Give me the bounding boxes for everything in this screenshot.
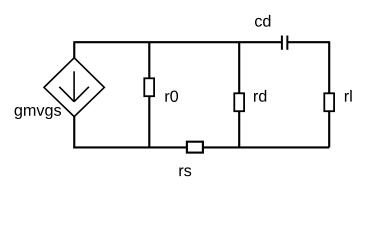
label rl [345, 90, 352, 102]
wire top rail left segment (current source to capacitor) [74, 41, 282, 43]
resistor rl [324, 93, 334, 111]
wire rd column [238, 42, 240, 147]
wire rl column [328, 41, 330, 147]
label rs [179, 167, 191, 176]
wire r0 column [148, 42, 150, 147]
resistor rd [234, 93, 244, 111]
wire left column bottom stub [73, 116, 75, 148]
dependent current source gmvgs (diamond with down arrow) [44, 58, 104, 117]
wire bottom rail [73, 146, 329, 148]
label gmvgs [15, 107, 61, 119]
label rd [254, 90, 266, 102]
wire top rail right segment (capacitor to rl corner) [287, 41, 329, 43]
wire left column top stub [73, 41, 75, 58]
label cd [255, 15, 270, 27]
resistor r0 [144, 78, 154, 96]
capacitor cd plates [282, 36, 287, 50]
label r0 [165, 90, 178, 101]
resistor rs (horizontal, in bottom rail) [187, 142, 203, 153]
